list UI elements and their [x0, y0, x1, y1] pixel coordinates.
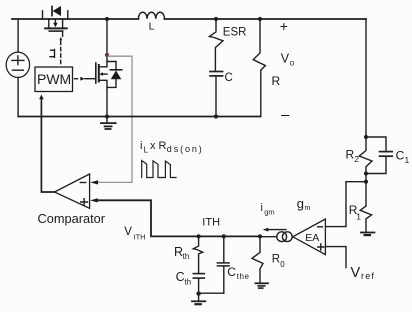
node switch node (red dot) — [105, 53, 109, 57]
svg-text:C: C — [225, 72, 233, 84]
svg-text:1: 1 — [356, 211, 361, 221]
node dot divider top — [364, 135, 368, 139]
label Vo minus — [281, 107, 290, 124]
resistor R2 — [346, 137, 373, 174]
svg-text:m: m — [305, 205, 311, 212]
node dot R top — [258, 17, 262, 21]
svg-text:V: V — [351, 265, 361, 281]
svg-text:–: – — [281, 107, 290, 124]
svg-text:th: th — [183, 252, 190, 261]
label gm — [297, 196, 311, 212]
svg-text:i: i — [261, 202, 263, 214]
wire Cth Cthe bottoms — [199, 292, 224, 294]
svg-text:V: V — [124, 226, 132, 238]
svg-text:L: L — [149, 21, 155, 33]
node dot switch top — [105, 17, 109, 21]
wire EA noninverting to Vref — [326, 247, 346, 268]
label ITH node — [202, 216, 220, 228]
body diode of Q2 — [107, 62, 122, 88]
wire feedback to EA inverting input — [326, 182, 366, 227]
svg-text:C: C — [396, 149, 405, 163]
wire PWM gate drive (dashed, to Q1) — [59, 37, 62, 67]
svg-text:ESR: ESR — [223, 27, 247, 39]
label Vo plus — [280, 18, 288, 34]
inductor L — [138, 12, 164, 33]
sense waveform sawtooth — [142, 161, 176, 178]
svg-text:+: + — [280, 18, 288, 34]
node dot ESR top — [214, 17, 218, 21]
gate pulse symbol — [50, 50, 55, 58]
op-amp EA (gm error amplifier) — [293, 219, 326, 255]
node dot Cthe tap — [222, 234, 226, 238]
node dot Ro tap — [258, 234, 262, 238]
node dot C bottom — [214, 114, 218, 118]
current source gm output — [260, 232, 292, 242]
node dot feedback tap — [364, 180, 368, 184]
svg-text:ITH: ITH — [202, 216, 220, 228]
wire bottom rail — [18, 116, 260, 118]
svg-text:ref: ref — [361, 271, 375, 281]
transistor Q1 PMOS high-side switch — [45, 19, 66, 36]
wire top rail — [12, 18, 366, 20]
resistor ESR — [209, 19, 246, 71]
svg-text:C: C — [227, 265, 236, 279]
svg-text:1: 1 — [405, 155, 410, 165]
resistor Ro — [252, 236, 285, 283]
wire PWM output to Q2 gate (dashed arrow) — [75, 77, 96, 81]
svg-text:i: i — [140, 140, 142, 152]
node dot Rth tap — [197, 234, 201, 238]
wire top rail to switch node — [106, 19, 108, 55]
capacitor C (output) — [210, 72, 233, 117]
resistor R1 — [349, 182, 372, 232]
label Vref — [351, 265, 376, 281]
svg-text:0: 0 — [280, 260, 285, 269]
svg-text:the: the — [237, 272, 250, 281]
svg-text:gm: gm — [264, 208, 274, 217]
transistor Q2 NMOS low-side switch — [96, 55, 107, 117]
svg-text:o: o — [290, 59, 295, 68]
svg-text:R: R — [272, 254, 280, 266]
label Vo — [281, 52, 295, 68]
voltage source Vin — [6, 19, 29, 117]
capacitor Cth — [176, 270, 205, 293]
node dot Q2 source — [105, 114, 109, 118]
resistor R (load) — [253, 19, 280, 117]
wire Vith comparator noninverting — [90, 198, 260, 236]
ground (power stage) — [101, 117, 116, 130]
arrowhead sense into comparator inverting — [90, 180, 98, 184]
svg-text:V: V — [281, 52, 290, 66]
wire current sense (gray) — [99, 56, 133, 182]
svg-text:Comparator: Comparator — [38, 211, 106, 226]
svg-text:ds(on): ds(on) — [167, 144, 204, 154]
PWM block U1 — [35, 67, 73, 92]
svg-text:PWM: PWM — [37, 71, 71, 87]
svg-text:L: L — [144, 146, 149, 155]
ground (Rth Cth Cthe) — [192, 291, 205, 304]
svg-text:g: g — [297, 196, 304, 211]
svg-text:EA: EA — [305, 232, 319, 244]
capacitor Cthe — [217, 236, 249, 293]
resistor Rth — [174, 236, 203, 273]
svg-text:ITH: ITH — [134, 233, 146, 242]
svg-text:x R: x R — [150, 140, 167, 152]
diode D1 (over high-side switch) — [43, 6, 68, 19]
label igm with arrow — [261, 202, 287, 232]
ground (R1) — [361, 233, 374, 236]
comparator U2 — [38, 174, 106, 226]
svg-text:2: 2 — [354, 154, 359, 164]
wire right drop to divider — [365, 19, 367, 137]
ground (Ro) — [256, 283, 269, 288]
wire divider segment — [365, 174, 367, 182]
label VITH — [124, 226, 145, 242]
svg-text:C: C — [176, 270, 185, 284]
svg-text:R: R — [346, 148, 355, 162]
svg-text:th: th — [184, 277, 191, 286]
capacitor C1 — [366, 137, 410, 174]
wire comparator output to PWM — [39, 95, 54, 193]
svg-text:R: R — [272, 74, 281, 88]
node dot divider mid — [364, 171, 368, 175]
label iL x Rds(on) — [140, 140, 204, 155]
